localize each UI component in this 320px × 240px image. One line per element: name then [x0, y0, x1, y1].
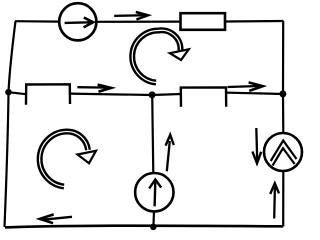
resistor R1 (box, top)	[181, 13, 226, 30]
dependent current source CS3 (right)	[264, 133, 302, 171]
wire top middle segment	[97, 21, 181, 23]
junction node A (left middle)	[5, 89, 12, 96]
wire middle vertical	[152, 95, 153, 174]
current source CS1 (top left)	[59, 3, 96, 40]
resistor R3 (open-bottom box, middle right)	[181, 87, 226, 106]
wire bottom	[5, 226, 283, 228]
arrow middle vertical branch (up)	[166, 135, 174, 171]
arrow middle right (right)	[228, 82, 263, 91]
mesh current arrow M1 (top loop, clockwise)	[132, 30, 189, 82]
arrow bottom (left)	[40, 214, 72, 223]
resistor R2 (open-bottom box, middle left)	[26, 84, 70, 104]
wire middle segment 3	[152, 94, 181, 95]
wire right vertical lower	[282, 171, 284, 227]
junction node C (right middle)	[279, 90, 286, 97]
arrow middle left (right)	[77, 85, 111, 92]
junction node D (bottom)	[150, 224, 157, 231]
wire middle left segment	[9, 92, 27, 94]
wire middle right segment	[226, 93, 283, 94]
arrow top (current direction, right)	[114, 12, 148, 20]
junction node B (center middle)	[149, 91, 156, 98]
current source CS2 (bottom middle)	[135, 173, 173, 211]
arrow right lower (up)	[270, 183, 279, 218]
mesh current arrow M2 (bottom-left loop, clockwise)	[40, 131, 96, 186]
wire top left segment	[15, 20, 60, 23]
wire middle segment 2	[70, 94, 152, 95]
arrow right upper (down)	[252, 128, 261, 163]
wire top right segment	[225, 20, 284, 23]
wire stub below CS2	[152, 211, 155, 227]
wire left vertical	[5, 21, 16, 227]
wire right vertical upper	[282, 21, 284, 134]
